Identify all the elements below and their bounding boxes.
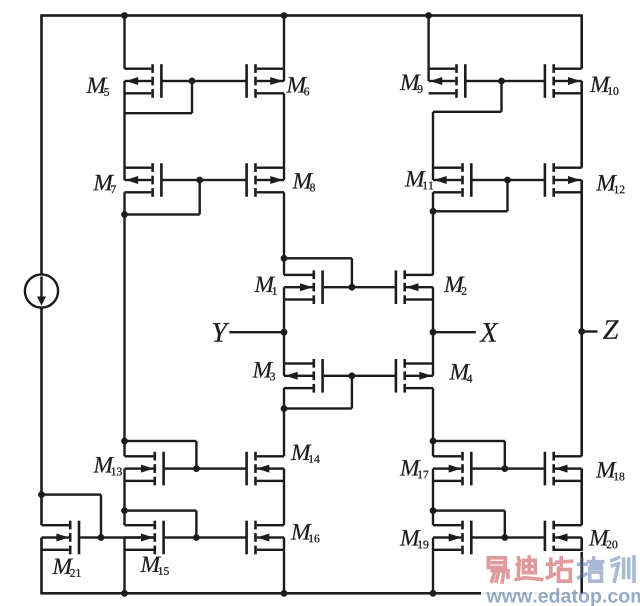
junction dot M7 drain: [121, 211, 128, 218]
label M14: [291, 445, 320, 463]
junction dot VSS-colB: [281, 590, 288, 597]
junction dot M17 gate: [501, 465, 508, 472]
junction dot VSS-colA: [121, 590, 128, 597]
wire left border upper segment: [40, 16, 43, 275]
transistor M18: [544, 452, 582, 486]
label M18: [596, 462, 625, 480]
watermark backing: [481, 551, 640, 606]
wire left border lower segment: [40, 538, 43, 594]
junction dot VDD-M9: [425, 12, 432, 19]
node X label: [479, 323, 498, 341]
junction dot VDD-M5: [121, 12, 128, 19]
transistor M2: [395, 270, 433, 304]
wire right border seg1: [580, 16, 583, 69]
node Z dot: [578, 328, 585, 335]
wire right border seg3: [580, 180, 583, 456]
watermark url text: [486, 588, 640, 606]
junction dot M8 drain node: [281, 255, 288, 262]
transistor M19: [433, 521, 473, 555]
junction dot colA row4: [121, 438, 128, 445]
label M11: [405, 171, 433, 189]
junction dot M21 bias: [38, 491, 45, 498]
wire right border seg2: [580, 81, 583, 168]
transistor M10: [544, 64, 582, 98]
wire M21 gate line to M15: [80, 536, 153, 538]
wire VDD top rail: [40, 14, 583, 17]
wire M6 drain to M8: [283, 93, 285, 180]
wire right border seg4: [580, 469, 583, 526]
transistor M17: [433, 452, 473, 486]
wire M5 drain to M7: [123, 81, 125, 180]
junction dot M9 gate: [498, 78, 505, 85]
wire M9 gate loop: [433, 81, 503, 113]
wire M13 gate loop: [125, 440, 198, 469]
wire M19 source to VSS: [432, 538, 434, 594]
wire M15 source to VSS: [123, 538, 125, 594]
junction dot VDD-M6: [281, 12, 288, 19]
wire M17 gate loop: [433, 440, 506, 469]
node X wire: [433, 331, 476, 333]
junction dot M3 drain node: [281, 405, 288, 412]
wire M8 drain to M1: [283, 192, 285, 275]
node Z wire: [582, 330, 598, 332]
transistor M11: [433, 163, 473, 197]
wire M5 gate loop: [125, 81, 194, 114]
wire M3 gate loop: [284, 376, 353, 410]
wire M7 drain down to M13: [123, 192, 125, 456]
node X dot: [430, 329, 437, 336]
wire M16 source to VSS: [283, 538, 285, 594]
junction dot M19 gate: [501, 534, 508, 541]
transistor M21: [42, 521, 81, 555]
wire M5-M6 gate line: [163, 80, 246, 82]
junction dot M5 gate: [189, 78, 196, 85]
transistor M13: [125, 452, 165, 486]
wire M1-M2 gate line: [324, 286, 395, 288]
transistor M15: [125, 521, 165, 555]
wire M13-M14 gate line: [165, 467, 246, 469]
watermark Chinese text: [488, 557, 634, 582]
wire M7-M8 gate line: [163, 179, 246, 181]
wire M14 source to M16: [283, 469, 285, 526]
transistor M3: [284, 359, 324, 393]
label M12: [596, 175, 624, 193]
label M16: [291, 524, 320, 542]
transistor M4: [395, 359, 433, 393]
wire M13 source down to M15: [123, 469, 125, 526]
junction dot M1-M2 gate: [349, 284, 356, 291]
label M10: [590, 77, 619, 95]
junction dot VSS-colC: [430, 590, 437, 597]
wire M19 gate loop: [433, 509, 506, 537]
wire M3 drain to M14: [283, 388, 285, 456]
wire M11-M12 gate line: [472, 179, 543, 181]
wire M19-M20 gate line: [472, 536, 543, 538]
transistor M20: [544, 521, 582, 555]
wire M8 drain to M1-M2 gates: [284, 257, 353, 287]
label M21: [52, 559, 80, 577]
label M5: [86, 78, 109, 96]
junction dot M13 gate: [193, 465, 200, 472]
wire M9 source to VDD: [427, 16, 429, 82]
wire left border mid segment: [40, 307, 43, 525]
label M4: [449, 364, 472, 382]
junction dot colC row4: [430, 438, 437, 445]
junction dot M3-M4 gate: [349, 372, 356, 379]
wire M17 source to M19: [432, 469, 434, 526]
junction dot M15 gate: [193, 534, 200, 541]
label M20: [589, 530, 618, 548]
label M15: [140, 557, 169, 575]
wire M2 source to node X to M4: [432, 287, 434, 376]
label M1: [254, 277, 277, 295]
node Y label: [213, 323, 230, 341]
junction dot M11 gate: [504, 177, 511, 184]
current source: [25, 274, 58, 307]
wire M9-M10 gate line: [466, 80, 543, 82]
junction dot M7 gate: [196, 177, 203, 184]
junction dot M21 gate: [98, 534, 105, 541]
transistor M12: [544, 163, 582, 197]
junction dot M11 drain: [430, 208, 437, 215]
wire M4 drain to M17: [432, 388, 434, 456]
label M3: [252, 362, 275, 380]
node Z label: [603, 320, 619, 338]
label M6: [286, 77, 309, 95]
wire M1 source to node Y to M3: [283, 287, 285, 376]
wire M15 gate loop: [125, 509, 198, 537]
label M2: [444, 277, 467, 295]
wire M21 gate loop: [42, 493, 103, 537]
junction dot colA row5: [121, 507, 128, 514]
wire M9 drain to M11: [432, 112, 434, 180]
wire M17-M18 gate line: [472, 467, 543, 469]
transistor M9: [429, 64, 467, 98]
junction dot colC row5: [430, 507, 437, 514]
transistor M14: [245, 452, 284, 486]
wire M11 gate loop: [433, 180, 509, 213]
label M19: [400, 530, 429, 548]
label M13: [93, 457, 122, 475]
wire M11 drain to M2: [432, 192, 434, 275]
transistor M7: [125, 163, 163, 197]
node Y wire: [229, 331, 284, 333]
label M17: [400, 460, 429, 478]
wire M5 source to VDD: [123, 16, 125, 69]
wire M6 source to VDD: [283, 16, 285, 82]
wire M3-M4 gate line: [324, 375, 395, 377]
transistor M5: [125, 64, 163, 98]
wire VSS bottom rail: [40, 592, 583, 595]
label M7: [93, 175, 116, 193]
wire right border seg5: [580, 538, 583, 594]
transistor M6: [245, 64, 284, 98]
label M8: [292, 173, 315, 191]
node Y dot: [281, 329, 288, 336]
label M9: [400, 75, 423, 93]
transistor M1: [284, 270, 324, 304]
transistor M16: [245, 521, 284, 555]
wire M15-M16 gate line: [165, 536, 246, 538]
transistor M8: [245, 163, 284, 197]
wire M7 gate loop: [125, 180, 201, 216]
